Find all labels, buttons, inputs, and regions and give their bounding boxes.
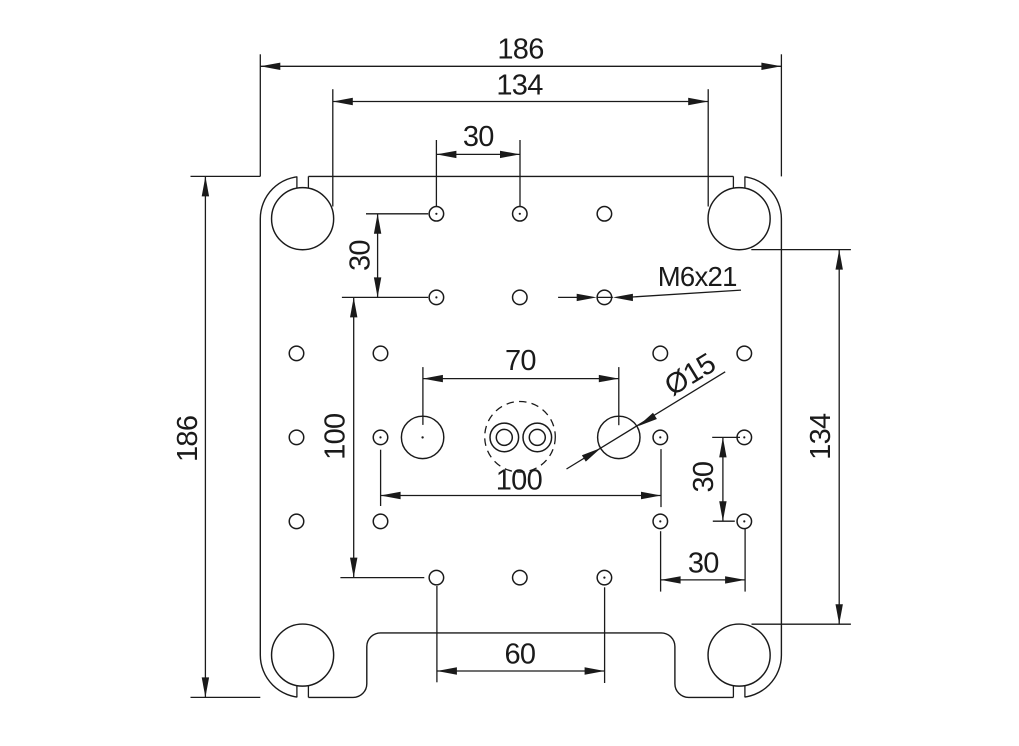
svg-text:30: 30 [688,547,719,579]
svg-text:186: 186 [497,34,543,66]
svg-text:134: 134 [496,70,543,102]
svg-text:100: 100 [319,414,351,460]
svg-text:30: 30 [345,240,377,271]
svg-text:70: 70 [505,345,536,377]
svg-text:100: 100 [496,464,542,496]
svg-text:134: 134 [805,413,837,460]
svg-text:186: 186 [172,416,204,462]
svg-text:M6x21: M6x21 [658,261,737,292]
svg-text:30: 30 [688,462,720,493]
svg-text:30: 30 [463,121,494,153]
svg-text:60: 60 [504,638,535,670]
